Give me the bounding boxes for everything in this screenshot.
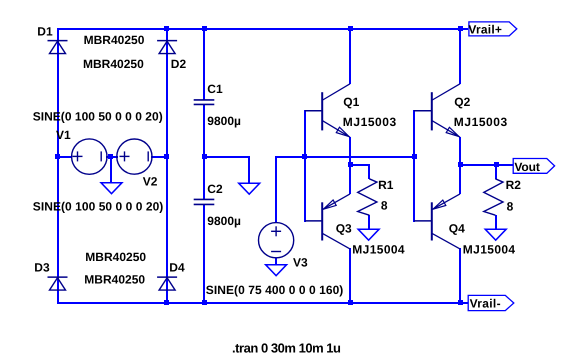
svg-text:MJ15003: MJ15003 bbox=[454, 115, 508, 129]
svg-text:C2: C2 bbox=[207, 182, 223, 196]
svg-text:8: 8 bbox=[381, 199, 388, 213]
svg-text:Vout: Vout bbox=[514, 160, 540, 174]
svg-text:V3: V3 bbox=[293, 256, 308, 270]
svg-text:C1: C1 bbox=[207, 82, 223, 96]
svg-text:MBR40250: MBR40250 bbox=[85, 250, 146, 264]
svg-text:MBR40250: MBR40250 bbox=[83, 57, 144, 71]
svg-text:9800µ: 9800µ bbox=[207, 114, 241, 128]
svg-text:8: 8 bbox=[507, 199, 514, 213]
svg-text:Vrail-: Vrail- bbox=[470, 297, 501, 311]
svg-text:MJ15004: MJ15004 bbox=[352, 243, 405, 257]
svg-text:D1: D1 bbox=[37, 25, 53, 39]
svg-text:Q2: Q2 bbox=[454, 95, 470, 109]
svg-text:SINE(0 75 400 0 0 0 160): SINE(0 75 400 0 0 0 160) bbox=[206, 283, 343, 297]
svg-text:V1: V1 bbox=[56, 128, 71, 142]
svg-text:D2: D2 bbox=[171, 57, 187, 71]
svg-text:.tran 0 30m 10m 1u: .tran 0 30m 10m 1u bbox=[232, 341, 341, 356]
svg-text:Vrail+: Vrail+ bbox=[468, 23, 502, 37]
svg-text:Q4: Q4 bbox=[449, 221, 465, 235]
svg-text:SINE(0 100 50 0 0 0 20): SINE(0 100 50 0 0 0 20) bbox=[33, 109, 163, 123]
svg-text:D3: D3 bbox=[34, 261, 50, 275]
svg-text:9800µ: 9800µ bbox=[207, 214, 241, 228]
svg-text:SINE(0 100 50 0 0 0 20): SINE(0 100 50 0 0 0 20) bbox=[33, 200, 164, 214]
svg-text:Q1: Q1 bbox=[343, 95, 359, 109]
svg-text:V2: V2 bbox=[143, 174, 158, 188]
svg-text:R1: R1 bbox=[378, 178, 394, 192]
svg-text:Q3: Q3 bbox=[336, 221, 352, 235]
svg-text:MBR40250: MBR40250 bbox=[84, 273, 145, 287]
svg-text:MBR40250: MBR40250 bbox=[84, 33, 145, 47]
svg-text:MJ15004: MJ15004 bbox=[463, 243, 516, 257]
svg-text:R2: R2 bbox=[506, 178, 522, 192]
svg-text:D4: D4 bbox=[169, 261, 185, 275]
svg-text:MJ15003: MJ15003 bbox=[343, 115, 397, 129]
